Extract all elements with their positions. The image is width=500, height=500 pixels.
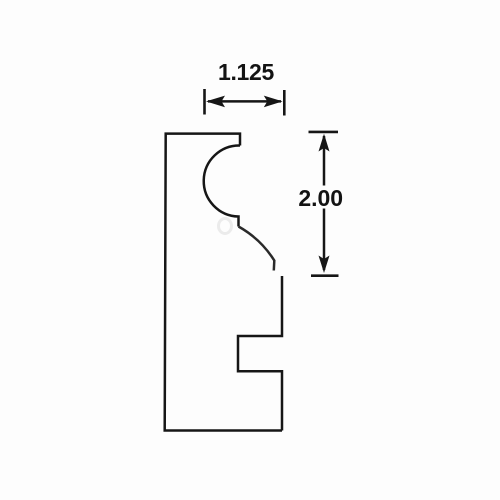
right face edge with rabbet notch [238,276,282,431]
width dimension line [208,100,281,103]
height dimension bottom tick [311,274,339,277]
faint scan artifact ring near ogee step [219,219,232,234]
height dimension line upper segment [323,136,326,186]
svg-text:1.125: 1.125 [218,59,275,85]
width dimension right arrowhead [264,96,283,108]
moulding profile outline (left/top/cove/ogee section) [165,134,282,431]
height dimension line lower segment [323,209,326,271]
ogee convex curve [239,227,275,271]
height dimension top tick [309,131,339,134]
width dimension left arrowhead [206,96,225,108]
height dimension up arrowhead [319,134,330,152]
width dimension right extension tick [283,90,286,116]
width dimension left extension tick [203,89,206,115]
svg-text:2.00: 2.00 [298,185,343,211]
cove arc (concave quarter-round cut) [204,145,240,226]
height dimension down arrowhead [319,256,330,274]
